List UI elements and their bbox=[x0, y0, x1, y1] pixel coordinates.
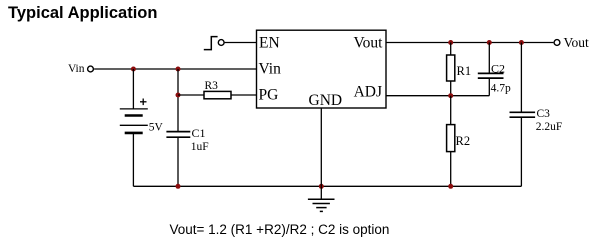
resistor R3 bbox=[204, 91, 231, 98]
wire C2 bottom bbox=[488, 78, 490, 96]
resistor R2 bbox=[447, 125, 455, 152]
terminal Vout bbox=[554, 35, 589, 50]
svg-text:Vin: Vin bbox=[259, 61, 282, 78]
svg-text:R2: R2 bbox=[456, 134, 471, 148]
svg-text:GND: GND bbox=[309, 92, 343, 109]
svg-text:PG: PG bbox=[259, 87, 279, 104]
wire PG left bbox=[178, 94, 204, 96]
junction PG/C1 bbox=[176, 93, 181, 98]
wire C2 top bbox=[488, 43, 490, 74]
capacitor C3 bbox=[510, 112, 536, 117]
wire ADJ bbox=[386, 95, 489, 97]
svg-text:Vin: Vin bbox=[68, 63, 85, 75]
svg-text:Typical Application: Typical Application bbox=[8, 4, 157, 22]
wire EN bbox=[225, 42, 257, 44]
wire C3 top bbox=[520, 43, 522, 113]
wire C3 bottom bbox=[520, 117, 522, 186]
wire R2 top bbox=[450, 96, 452, 125]
battery BT1 5V bbox=[120, 109, 148, 133]
svg-text:Vout= 1.2 (R1 +R2)/R2 ; C2 is: Vout= 1.2 (R1 +R2)/R2 ; C2 is option bbox=[170, 222, 390, 237]
wire Vin input bbox=[94, 68, 256, 70]
svg-text:Vout: Vout bbox=[564, 35, 590, 50]
svg-text:2.2uF: 2.2uF bbox=[536, 121, 563, 133]
wire battery bottom bbox=[132, 133, 134, 186]
svg-text:EN: EN bbox=[259, 34, 280, 51]
svg-text:R3: R3 bbox=[205, 80, 219, 92]
junction Vout/C3 bbox=[519, 40, 524, 45]
wire PG right bbox=[231, 94, 257, 96]
wire R1 top bbox=[450, 43, 452, 56]
wire battery top bbox=[132, 69, 134, 109]
svg-text:1uF: 1uF bbox=[191, 141, 209, 153]
terminal Vin bbox=[68, 63, 93, 75]
svg-text:R1: R1 bbox=[457, 64, 472, 78]
svg-text:Vout: Vout bbox=[353, 35, 383, 52]
wire Vout rail bbox=[386, 42, 553, 44]
capacitor C2 bbox=[478, 73, 504, 78]
svg-text:ADJ: ADJ bbox=[354, 84, 382, 101]
junction rail/R2 bbox=[448, 184, 453, 189]
svg-text:4.7p: 4.7p bbox=[491, 82, 511, 94]
junction rail/GND bbox=[319, 184, 324, 189]
svg-text:5V: 5V bbox=[149, 122, 164, 134]
wire R2 bottom bbox=[450, 152, 452, 187]
wire ground rail bbox=[133, 185, 521, 187]
enable step signal source bbox=[204, 37, 224, 50]
capacitor C1 bbox=[166, 132, 190, 138]
battery plus label bbox=[140, 99, 147, 106]
junction Vout/R1 bbox=[448, 40, 453, 45]
svg-text:C3: C3 bbox=[537, 108, 551, 120]
ground bbox=[308, 186, 335, 211]
resistor R1 bbox=[447, 55, 455, 81]
wire C1 bottom bbox=[177, 137, 179, 186]
junction rail/C1 bbox=[176, 184, 181, 189]
junction Vout/C2 bbox=[487, 40, 492, 45]
junction Vin/C1 bbox=[176, 67, 181, 72]
junction Vin/battery bbox=[131, 67, 136, 72]
junction ADJ/R1/R2 bbox=[448, 93, 453, 98]
wire C1 top bbox=[177, 69, 179, 132]
wire GND pin bbox=[320, 108, 322, 186]
wire R1 bottom bbox=[450, 81, 452, 96]
svg-text:C1: C1 bbox=[192, 126, 206, 140]
svg-text:C2: C2 bbox=[491, 61, 505, 75]
IC U1 body bbox=[257, 30, 387, 108]
